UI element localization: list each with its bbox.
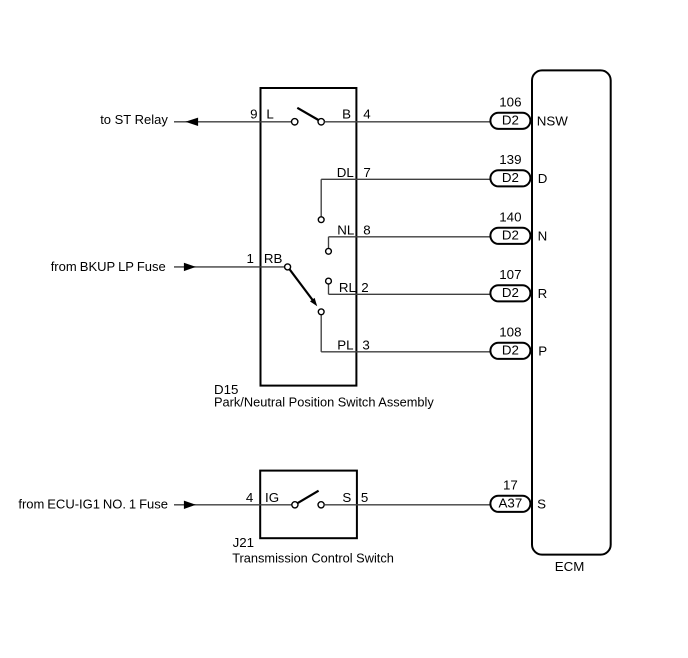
svg-text:106: 106	[499, 95, 521, 110]
wire S to ECM S	[324, 504, 491, 506]
switch blade IG-S	[298, 491, 319, 503]
wire to ST Relay (NSW row, left)	[174, 121, 292, 123]
arrow from BKUP LP Fuse	[184, 263, 196, 271]
wire RL to ECM R	[329, 293, 491, 295]
svg-text:2: 2	[361, 280, 368, 295]
svg-text:L: L	[266, 107, 273, 122]
svg-text:from ECU-IG1 NO. 1 Fuse: from ECU-IG1 NO. 1 Fuse	[18, 496, 168, 511]
svg-text:D: D	[538, 171, 548, 186]
svg-text:S: S	[342, 490, 351, 505]
svg-text:4: 4	[246, 490, 254, 505]
arrow from ECU-IG1 NO. 1 Fuse	[184, 501, 196, 509]
wire PL to ECM P	[321, 351, 490, 353]
svg-text:17: 17	[503, 477, 518, 492]
wire from BKUP LP Fuse	[174, 266, 285, 268]
svg-text:3: 3	[362, 338, 369, 353]
svg-text:D2: D2	[502, 170, 519, 185]
svg-text:D2: D2	[502, 113, 519, 128]
svg-text:140: 140	[499, 210, 521, 225]
svg-text:1: 1	[247, 251, 254, 266]
contact PL	[318, 309, 324, 315]
D15 Park/Neutral Position Switch Assembly box	[261, 88, 357, 386]
svg-text:to ST Relay: to ST Relay	[100, 112, 168, 127]
wire PL vertical	[320, 315, 322, 352]
svg-text:P: P	[538, 343, 547, 358]
svg-text:PL: PL	[337, 338, 353, 353]
contact RL	[326, 278, 332, 284]
arrow to ST Relay	[185, 118, 198, 126]
svg-text:4: 4	[363, 107, 371, 122]
svg-text:107: 107	[499, 267, 521, 282]
contact DL	[318, 217, 324, 223]
svg-text:139: 139	[499, 152, 521, 167]
wire from ECU-IG1 NO. 1 Fuse	[174, 504, 292, 506]
contact IG	[292, 502, 298, 508]
wire DL to ECM D	[321, 178, 490, 180]
svg-text:J21: J21	[233, 535, 255, 550]
svg-text:D2: D2	[502, 343, 519, 358]
svg-text:RL: RL	[339, 280, 356, 295]
svg-text:NSW: NSW	[537, 113, 569, 128]
contact RB	[285, 264, 291, 270]
svg-text:7: 7	[363, 165, 370, 180]
svg-text:D2: D2	[502, 228, 519, 243]
connector D2 pin 140 (N)	[490, 228, 530, 244]
svg-text:IG: IG	[265, 490, 279, 505]
contact B	[318, 119, 324, 125]
connector D2 pin 106 (NSW)	[490, 113, 530, 129]
svg-text:ECM: ECM	[555, 559, 585, 574]
svg-text:Transmission Control Switch: Transmission Control Switch	[232, 551, 394, 566]
svg-text:DL: DL	[337, 165, 354, 180]
wire B to ECM NSW	[324, 121, 490, 123]
svg-text:8: 8	[363, 222, 370, 237]
svg-text:108: 108	[499, 325, 521, 340]
wire NL vertical	[328, 237, 330, 249]
svg-text:B: B	[342, 107, 351, 122]
svg-text:RB: RB	[264, 251, 283, 266]
svg-text:NL: NL	[337, 222, 354, 237]
wire RL vertical	[328, 284, 330, 294]
switch blade L-B	[297, 108, 318, 120]
svg-text:9: 9	[250, 107, 257, 122]
svg-text:Park/Neutral Position Switch A: Park/Neutral Position Switch Assembly	[214, 395, 434, 410]
connector D2 pin 108 (P)	[490, 343, 530, 359]
J21 Transmission Control Switch box	[260, 471, 357, 539]
wire NL to ECM N	[329, 236, 491, 238]
selector blade RB (arrow)	[290, 270, 313, 301]
connector A37 pin 17 (S)	[490, 496, 530, 512]
svg-text:D2: D2	[502, 285, 519, 300]
svg-text:R: R	[538, 286, 548, 301]
contact NL	[326, 248, 332, 254]
svg-text:from BKUP LP Fuse: from BKUP LP Fuse	[51, 259, 166, 274]
svg-text:S: S	[537, 496, 546, 511]
contact S	[318, 502, 324, 508]
ECM box	[532, 70, 611, 554]
connector D2 pin 139 (D)	[490, 170, 530, 186]
svg-text:N: N	[538, 228, 548, 243]
svg-text:5: 5	[361, 490, 368, 505]
connector D2 pin 107 (R)	[490, 285, 530, 301]
svg-text:A37: A37	[499, 496, 523, 511]
contact L	[292, 119, 298, 125]
wire DL vertical	[320, 179, 322, 217]
